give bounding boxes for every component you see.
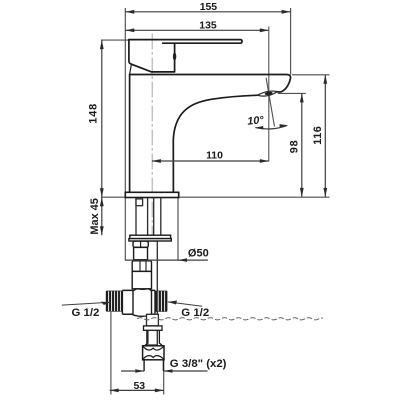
svg-text:G 1/2: G 1/2 <box>72 307 100 319</box>
svg-text:Ø50: Ø50 <box>188 248 209 260</box>
svg-text:G 1/2: G 1/2 <box>181 307 209 319</box>
svg-text:155: 155 <box>200 2 218 13</box>
svg-text:110: 110 <box>206 151 223 162</box>
svg-text:148: 148 <box>88 103 100 124</box>
svg-text:G 3/8" (x2): G 3/8" (x2) <box>170 358 227 370</box>
svg-text:10°: 10° <box>247 114 265 127</box>
svg-text:116: 116 <box>312 126 324 145</box>
svg-text:Max 45: Max 45 <box>89 198 101 234</box>
svg-text:135: 135 <box>199 20 217 31</box>
svg-text:98: 98 <box>288 140 300 154</box>
svg-text:53: 53 <box>133 381 145 392</box>
